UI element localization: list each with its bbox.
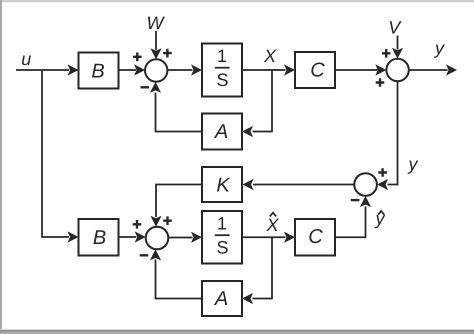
svg-text:V: V [388, 17, 402, 37]
svg-text:1: 1 [217, 46, 227, 66]
summing junction S3 [146, 227, 169, 250]
wire C1 to sum S2 [335, 69, 378, 71]
svg-text:C: C [310, 60, 325, 82]
svg-text:1: 1 [217, 214, 227, 234]
sign plus S2 upper-left [382, 49, 391, 58]
sign minus S4 lower-left [351, 199, 360, 201]
svg-text:S: S [216, 70, 228, 90]
sign plus S4 upper-right [378, 168, 387, 177]
sign plus S3 top [163, 216, 172, 225]
wire y output [409, 69, 448, 71]
sign plus S1 left [133, 53, 142, 62]
svg-text:u: u [21, 49, 31, 69]
wire I1 to C1 [242, 69, 286, 71]
svg-text:A: A [214, 288, 228, 310]
svg-text:X: X [263, 46, 277, 66]
wire S4 to K [253, 184, 354, 186]
sign plus S3 left [133, 220, 142, 229]
sign plus S2 lower-left [376, 78, 385, 87]
wire B2 to sum S3 [119, 236, 137, 238]
svg-text:B: B [91, 60, 104, 82]
wire A2 feedback to S3 [156, 260, 203, 299]
wire u branch vertical [41, 71, 43, 237]
svg-text:B: B [93, 227, 106, 249]
hat over yhat [378, 211, 384, 215]
sign plus S1 top [163, 49, 172, 58]
sign minus S3 bottom [140, 254, 149, 256]
wire S1 to integrator I1 [167, 69, 192, 71]
hat over X [270, 213, 276, 217]
wire S3 to integrator I2 [168, 237, 192, 239]
wire K to sum S3 [156, 185, 202, 218]
svg-text:X: X [265, 215, 279, 235]
svg-text:C: C [308, 226, 323, 248]
wire C2 up to sum S4 [335, 207, 366, 238]
svg-text:y: y [433, 38, 445, 58]
svg-text:A: A [214, 121, 228, 143]
block A2 [202, 281, 242, 316]
summing junction S4 [354, 173, 377, 196]
sign minus S1 bottom [141, 86, 150, 88]
svg-text:S: S [216, 238, 228, 258]
wire X branch down to A1 [253, 71, 273, 132]
wire A1 feedback to S1 [156, 93, 203, 132]
block B1 [79, 53, 119, 89]
integrator I1 block 1/S [202, 44, 242, 97]
wire Xhat branch down to A2 [253, 238, 273, 299]
wire I2 to C2 [242, 236, 286, 238]
wire S2 down to sum S4 [388, 81, 398, 184]
svg-text:y: y [374, 209, 386, 229]
block C1 [295, 52, 335, 88]
block B2 [79, 219, 119, 256]
svg-text:y: y [407, 154, 419, 174]
wire u input [16, 69, 69, 71]
integrator I2 block 1/S [202, 211, 242, 264]
scan border bottom [0, 329, 474, 330]
svg-text:K: K [216, 174, 231, 196]
block C2 [295, 219, 335, 256]
block A1 [202, 114, 242, 150]
svg-text:W: W [147, 13, 166, 33]
wire W into S1 [155, 31, 157, 50]
summing junction S2 [386, 59, 408, 81]
scan border top [0, 0, 474, 2]
block K [202, 167, 242, 202]
summing junction S1 [145, 59, 167, 81]
wire u branch to B2 [41, 236, 69, 238]
scan border left [0, 0, 2, 334]
wire V into S2 [397, 36, 399, 50]
wire B1 to sum S1 [119, 69, 137, 71]
